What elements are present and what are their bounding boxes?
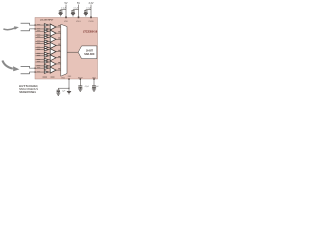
mux input label 6 [58,55,60,58]
arrow input channel 1 [3,28,14,30]
mux input label 1 [58,24,60,27]
channel 2 PGA amp A2c [50,30,56,36]
pin VDDL [78,16,80,18]
mux input label 2 [58,30,60,33]
ADC U2 16-bit SAR [78,46,97,59]
arrow input channel 8 [2,61,12,69]
svg-text:5V: 5V [65,2,68,5]
svg-text:0.1µF: 0.1µF [61,7,67,9]
pin labels IN7+ IN7- [37,61,40,66]
svg-text:0.1µF: 0.1µF [86,7,92,9]
pin VDD [65,16,67,18]
svg-text:5V: 5V [77,2,80,5]
channel 1 wires IN1+ IN1- [36,25,61,29]
channel 4 input buffers A4a A4b [44,42,48,49]
channel 1 input buffers A1a A1b [44,24,48,31]
channel 5 wires IN5+ IN5- [36,50,61,54]
ground [71,13,75,15]
channel 7 input buffers A7a A7b [44,61,48,68]
svg-text:GND: GND [61,77,66,79]
svg-text:16-BIT: 16-BIT [86,50,94,52]
pin OVDD [90,16,92,18]
pin stubs IN1 [34,24,35,25]
channel 3 PGA amp A3c [50,36,56,42]
channel 6 PGA amp A6c [50,55,56,61]
pin labels IN6+ IN6- [37,55,40,60]
ground [67,91,71,93]
channel 2 input buffers A2a A2b [44,30,48,37]
svg-text:LTC2358-16: LTC2358-16 [83,30,98,34]
channel 8 wires IN8+ IN8- [36,68,61,72]
capacitor bypass 0.1uF [60,10,62,11]
capacitor C ref 1uF [57,88,59,90]
svg-text:3.3V: 3.3V [89,2,94,5]
mux input label 5 [58,49,60,52]
channel 5 PGA amp A5c [50,49,56,55]
capacitor bypass 0.1uF [85,10,87,11]
svg-text:SAMPLE CHANNELS: SAMPLE CHANNELS [19,91,36,94]
svg-text:0.1µF: 0.1µF [74,7,80,9]
mux MUX1 [61,24,67,76]
pin COM label [43,76,48,79]
pin labels IN1+ IN1- [37,24,40,29]
wire differential pair to channel 1 [21,23,36,31]
channel 4 PGA amp A4c [50,42,56,48]
mux input label 7 [58,61,60,64]
svg-text:VDDL: VDDL [76,21,81,23]
pin CNV label [51,76,55,79]
svg-text:SAR ADC: SAR ADC [84,53,95,56]
pin labels IN2+ IN2- [37,30,40,35]
channel 2 wires IN2+ IN2- [36,31,61,35]
mux input label 3 [58,37,60,40]
svg-text:±10.24V INPUT: ±10.24V INPUT [40,19,54,22]
pin stubs IN8 [34,68,35,69]
channel 7 PGA amp A7c [50,61,56,67]
channel 8 input buffers A8a A8b [44,67,48,74]
pin labels IN3+ IN3- [37,36,40,41]
svg-text:OVDD: OVDD [88,21,94,23]
pin labels IN4+ IN4- [37,43,40,48]
op-amp U1 LTC2358-16 octal ADC block [35,18,98,80]
ground [78,89,82,91]
channel 7 wires IN7+ IN7- [36,62,61,66]
wire differential pair to channel 8 [21,66,36,74]
caption text [19,85,38,94]
svg-text:VDD: VDD [64,21,69,23]
channel 6 wires IN6+ IN6- [36,56,61,60]
ground [56,93,60,95]
mux input label 4 [58,43,60,46]
mux input label 8 [58,67,60,70]
ground [92,89,96,91]
pin labels IN8+ IN8- [37,67,40,72]
channel 3 wires IN3+ IN3- [36,37,61,41]
channel 1 PGA amp A1c [50,24,56,30]
channel 4 wires IN4+ IN4- [36,44,61,48]
capacitor bypass 0.1uF [72,10,74,11]
channel 5 input buffers A5a A5b [44,48,48,55]
wire mux output to ADC [67,51,78,53]
ground [84,13,88,15]
pin labels IN5+ IN5- [37,49,40,54]
channel 8 PGA amp A8c [50,67,56,73]
channel 6 input buffers A6a A6b [44,54,48,61]
ground [59,13,63,15]
channel 3 input buffers A3a A3b [44,36,48,43]
